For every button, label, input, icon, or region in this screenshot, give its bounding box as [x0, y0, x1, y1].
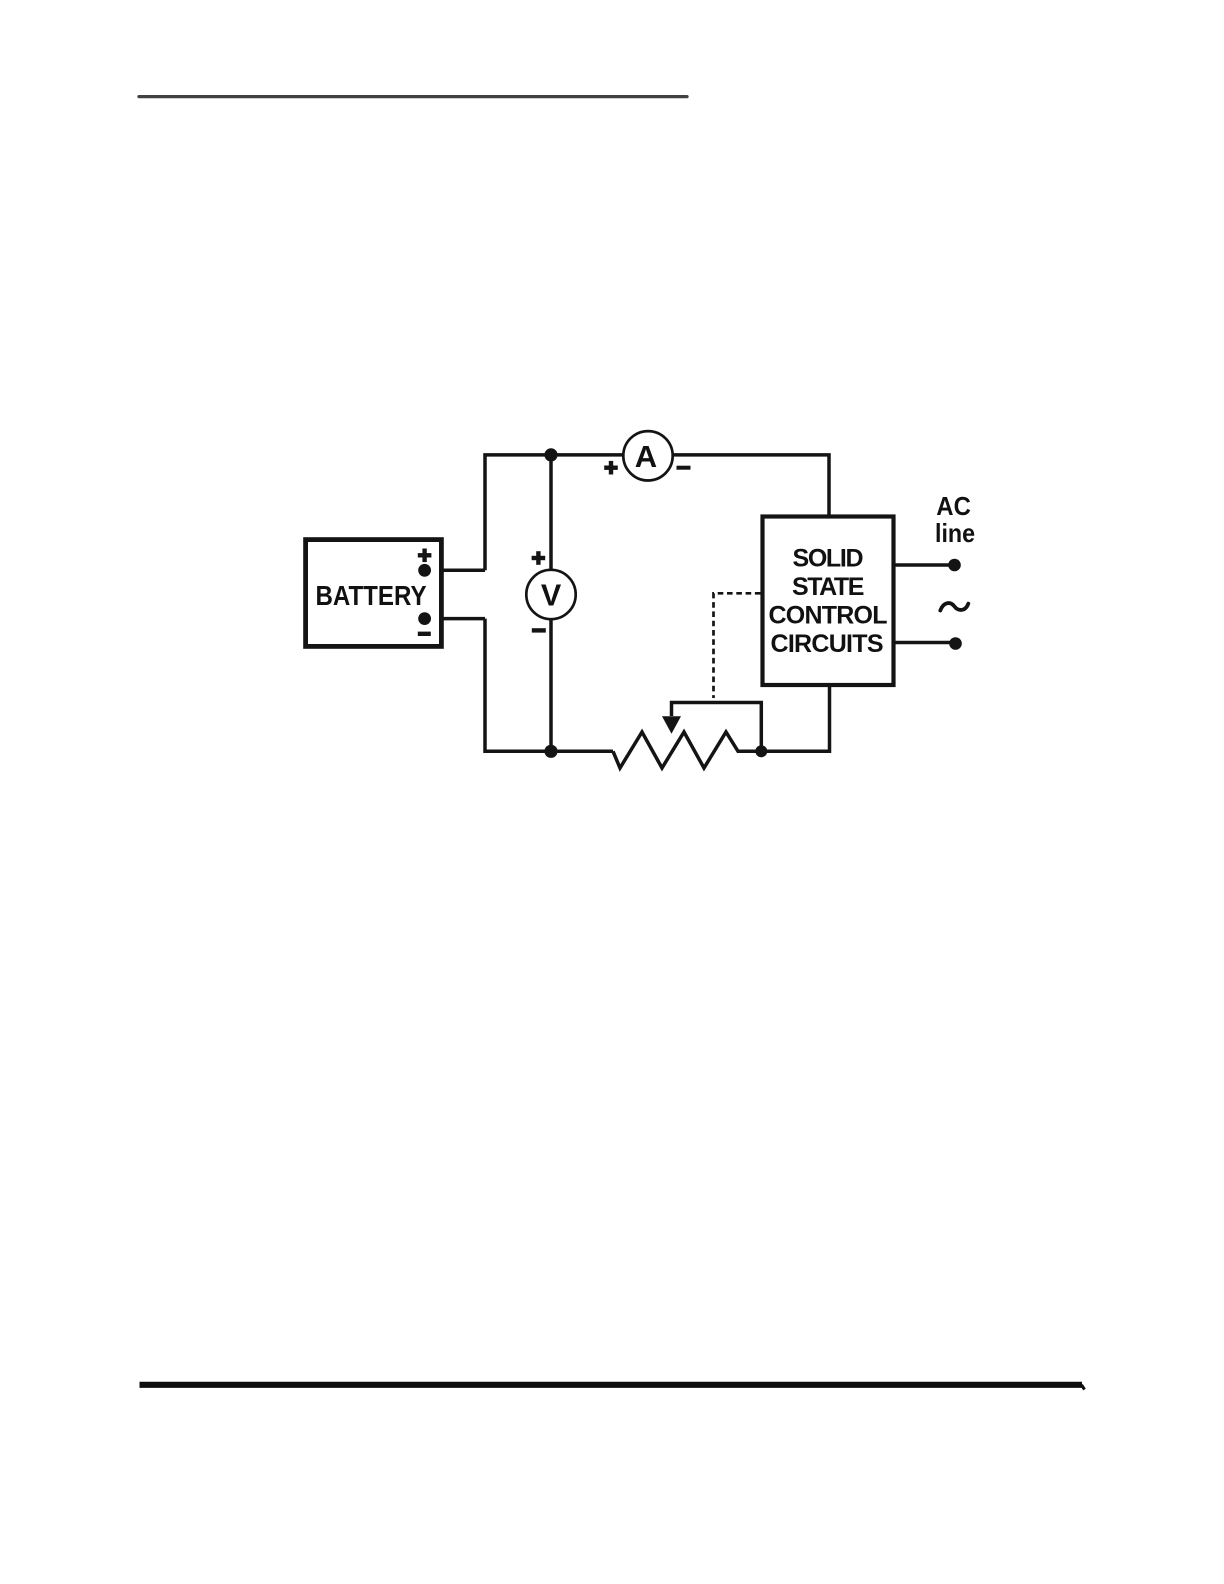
junction node wiper tap	[755, 745, 767, 757]
svg-text:V: V	[541, 579, 562, 613]
ammeter minus label	[677, 466, 691, 470]
ammeter A1 circle	[623, 431, 672, 480]
voltmeter plus label	[532, 551, 546, 565]
AC line lower terminal dot	[949, 637, 962, 650]
junction node top (voltmeter tap)	[544, 448, 557, 461]
top horizontal rule	[139, 95, 687, 98]
wire bottom: battery negative to potentiometer to control box	[485, 619, 613, 752]
control box label	[769, 544, 888, 658]
svg-text:STATE: STATE	[792, 573, 865, 601]
AC line upper terminal dot	[948, 559, 961, 572]
battery negative sign	[418, 632, 431, 636]
wire AC line upper	[894, 563, 950, 567]
potentiometer R1	[613, 685, 830, 768]
svg-text:CONTROL: CONTROL	[769, 601, 888, 629]
wire voltmeter branch	[549, 455, 553, 751]
wire AC line lower	[894, 641, 951, 645]
battery positive terminal dot	[418, 564, 431, 577]
svg-text:CIRCUITS: CIRCUITS	[771, 630, 884, 658]
junction node bottom left (voltmeter tap)	[544, 745, 557, 758]
solid state control circuits box U1	[763, 517, 894, 686]
battery negative terminal dot	[418, 612, 431, 625]
svg-text:line: line	[935, 518, 975, 548]
ammeter plus label	[604, 461, 618, 475]
bottom horizontal rule	[140, 1382, 1083, 1388]
bottom rule end tail	[1082, 1385, 1085, 1390]
battery positive sign	[418, 549, 432, 563]
wiper arm of potentiometer	[672, 703, 762, 749]
wiper arrowhead	[662, 716, 681, 734]
voltmeter minus label	[532, 628, 546, 632]
svg-text:SOLID: SOLID	[793, 544, 864, 572]
wire battery positive lead	[425, 569, 485, 573]
svg-text:A: A	[635, 439, 657, 474]
battery B1 box	[306, 540, 442, 647]
voltmeter V1 circle	[526, 570, 575, 619]
svg-text:AC: AC	[936, 491, 971, 521]
wire battery negative lead	[425, 617, 485, 621]
svg-text:BATTERY: BATTERY	[316, 580, 427, 611]
AC tilde symbol	[940, 603, 968, 610]
dashed control line from control box to wiper	[714, 593, 761, 698]
wire top: node to ammeter to control box	[485, 455, 829, 570]
